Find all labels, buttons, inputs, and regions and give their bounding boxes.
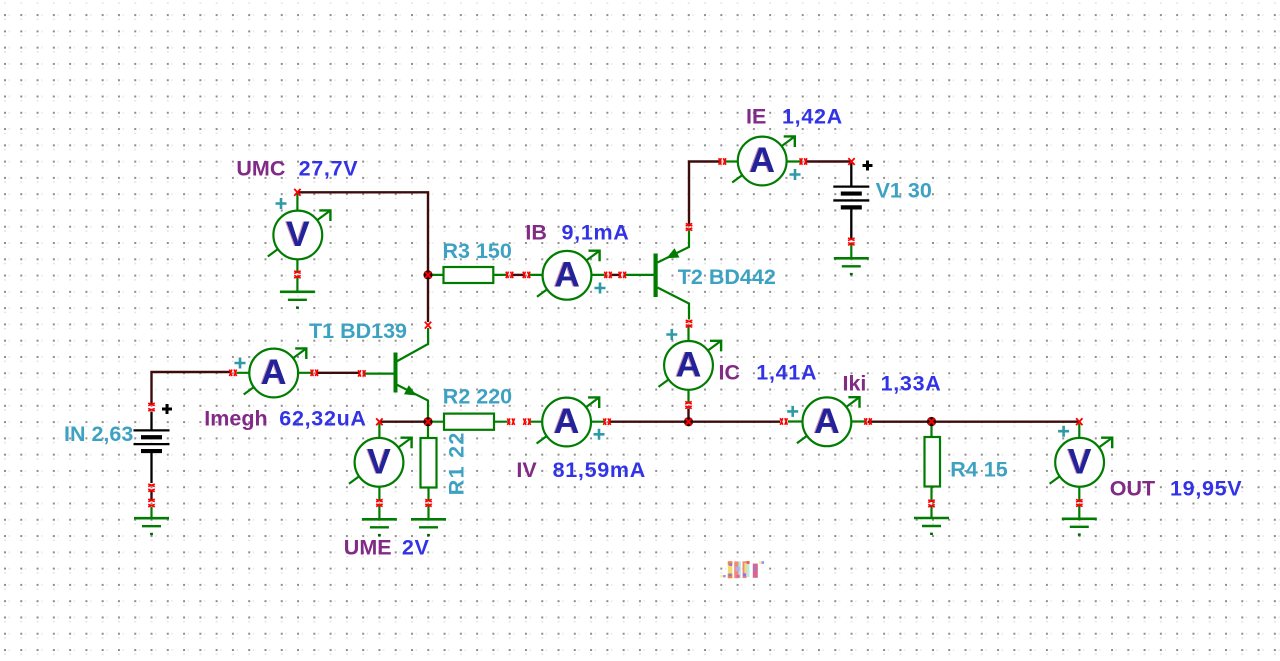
pin marks T2 collector / IC top — [686, 320, 693, 327]
pin marks IB right — [604, 272, 611, 279]
voltmeter UME top pin — [378, 424, 380, 438]
ammeter IC — [659, 341, 722, 390]
resistor R1 — [421, 438, 437, 488]
pin marks IV left — [523, 418, 530, 425]
pin marks UME bottom — [376, 499, 383, 506]
pin marks Imegh right — [311, 370, 318, 377]
battery V1 lead top — [850, 163, 852, 186]
ammeter IB — [537, 251, 600, 300]
voltmeter OUT top pin — [1078, 424, 1080, 439]
pin marks node B — [425, 418, 431, 425]
pin mark T1 collector — [425, 322, 431, 329]
wire: IV to node C — [610, 421, 685, 423]
ammeter IV — [537, 397, 600, 446]
ammeter IE pins — [726, 160, 801, 162]
svg-text:R2 220: R2 220 — [443, 384, 512, 408]
ground pin of UME — [378, 505, 380, 519]
svg-text:OUT: OUT — [1110, 477, 1155, 501]
wire: R3 to IB — [513, 274, 524, 276]
voltmeter UMC — [268, 210, 331, 259]
pin marks battery IN bottom — [148, 484, 155, 487]
wire: T2 emitter up and to IE meter — [689, 162, 720, 227]
svg-text:19,95V: 19,95V — [1170, 477, 1242, 501]
svg-text:IB: IB — [525, 221, 547, 245]
plus of IB — [595, 283, 606, 294]
plus of IN — [162, 404, 172, 414]
pin marks battery V1 bottom — [848, 238, 855, 245]
pin marks T2 emitter — [686, 223, 693, 230]
voltmeter OUT — [1050, 438, 1113, 487]
pin marks IB left — [523, 272, 530, 279]
plus of V1 — [863, 161, 873, 171]
voltmeter UME — [349, 438, 412, 487]
pin marks Iki right — [864, 418, 871, 425]
ground pin of UMC — [296, 277, 298, 292]
pin marks ground IN — [148, 499, 155, 502]
pin marks Iki left — [780, 418, 787, 425]
pin mark UMC top — [294, 189, 300, 196]
plus of OUT — [1058, 426, 1069, 437]
wire: Imegh to T1 base — [317, 372, 359, 374]
voltmeter UME bottom pin — [378, 487, 380, 501]
wire: node D to OUT voltmeter — [935, 421, 1079, 423]
pin marks OUT bottom — [1076, 499, 1083, 506]
svg-text:T1 BD139: T1 BD139 — [309, 319, 407, 343]
svg-text:IV: IV — [516, 458, 537, 482]
pin marks T1 base — [358, 370, 365, 377]
svg-text:UMC: UMC — [236, 156, 285, 180]
svg-text:1,33A: 1,33A — [881, 372, 942, 396]
voltmeter UMC top pin — [296, 194, 298, 212]
pin marks IV right — [603, 418, 610, 425]
ammeter IC bottom pin — [687, 390, 689, 402]
ammeter IV pins — [530, 421, 605, 423]
ground of UME — [362, 519, 397, 536]
pin marks battery IN top — [148, 403, 155, 406]
resistor R3 — [444, 267, 494, 283]
ammeter Imegh pins — [237, 372, 312, 374]
transistor T2 BD442 — [654, 231, 690, 320]
ammeter Iki pins — [788, 420, 866, 422]
pin marks R2 right — [507, 418, 514, 425]
svg-text:IN 2,63: IN 2,63 — [64, 422, 133, 446]
battery IN — [134, 430, 170, 451]
ground of IN — [134, 518, 169, 535]
svg-text:1,41A: 1,41A — [756, 361, 817, 385]
pin marks Imegh left — [229, 370, 236, 377]
svg-text:62,32uA: 62,32uA — [279, 407, 366, 431]
svg-text:2V: 2V — [402, 535, 430, 559]
pin marks node D — [928, 418, 934, 425]
resistor R2 — [444, 414, 494, 430]
resistor R2 leads — [432, 421, 508, 423]
node C junction — [684, 417, 693, 426]
wire: IE meter to battery V1 — [807, 160, 852, 162]
transistor T2 base pin — [625, 274, 654, 276]
ground under R4 — [914, 518, 949, 535]
battery IN lead top — [150, 412, 152, 431]
svg-text:R3 150: R3 150 — [443, 239, 512, 263]
pin marks UMC bottom — [294, 271, 301, 278]
resistor R4 top pin — [930, 426, 932, 438]
plus of IE — [790, 169, 801, 180]
pin marks R3 right — [506, 272, 513, 279]
resistor R1 bottom pin — [427, 488, 429, 502]
ground of UMC — [280, 292, 315, 309]
svg-text:Iki: Iki — [843, 372, 867, 396]
wire: node C to Iki — [693, 421, 932, 423]
svg-text:IC: IC — [719, 361, 741, 385]
plus of Iki — [787, 406, 798, 417]
svg-text:UME: UME — [344, 535, 392, 559]
resistor R4 bottom pin — [930, 487, 932, 503]
svg-text:R1 22: R1 22 — [444, 431, 468, 495]
pin mark battery V1 top — [848, 158, 854, 165]
battery V1 — [833, 187, 869, 208]
node B junction — [423, 417, 432, 426]
plus of IV — [594, 429, 605, 440]
resistor R1 top pin — [427, 426, 429, 439]
svg-text:T2 BD442: T2 BD442 — [678, 265, 776, 289]
pin mark OUT top — [1076, 418, 1082, 425]
wire: IB to T2 base — [612, 274, 620, 276]
resistor R3 leads — [431, 274, 507, 276]
voltmeter OUT bottom pin — [1078, 486, 1080, 502]
ground under R1 — [411, 519, 446, 536]
battery IN lead bottom — [150, 453, 152, 484]
pin marks IE left — [719, 158, 726, 165]
svg-text:R4 15: R4 15 — [950, 457, 1007, 481]
ammeter IC top pin — [687, 327, 689, 342]
plus of Imegh — [235, 358, 246, 369]
ground of OUT — [1062, 519, 1097, 536]
artifact text — [721, 561, 765, 578]
transistor T1 base pin — [365, 373, 394, 375]
ammeter Imegh — [244, 348, 307, 397]
svg-text:Imegh: Imegh — [204, 407, 267, 431]
pin marks R4 bottom — [928, 500, 935, 507]
node A junction — [423, 270, 432, 279]
ground of V1 — [834, 258, 869, 275]
pin marks IC bottom — [685, 401, 692, 408]
voltmeter UMC bottom pin — [296, 259, 298, 273]
pin marks R1 bottom — [425, 499, 432, 506]
transistor T1 BD139 — [394, 328, 429, 418]
wire: IC bottom to node C — [687, 409, 689, 419]
svg-text:27,7V: 27,7V — [299, 156, 359, 180]
ground pin under R4 — [930, 506, 932, 518]
battery V1 lead bottom — [850, 208, 852, 239]
pin marks node C — [685, 418, 691, 425]
svg-text:IE: IE — [746, 105, 766, 129]
svg-text:81,59mA: 81,59mA — [553, 458, 646, 482]
plus of UMC — [276, 198, 287, 209]
pin mark UME top — [376, 418, 382, 425]
node D junction — [927, 417, 936, 426]
pin marks node A — [425, 272, 431, 279]
wire: UMC top to node A down to T1 collector — [297, 192, 428, 322]
ammeter IE — [732, 136, 795, 185]
pin marks T2 base — [619, 272, 626, 279]
resistor R4 — [925, 437, 941, 487]
svg-text:V1 30: V1 30 — [876, 179, 932, 203]
wire: battery IN top to Imegh — [152, 372, 232, 404]
svg-text:1,42A: 1,42A — [782, 105, 843, 129]
ground pin of IN — [150, 507, 152, 518]
wire: battery IN bottom to ground — [150, 490, 152, 501]
ground pin of OUT — [1078, 506, 1080, 519]
ground pin under R1 — [427, 505, 429, 519]
plus of IC — [666, 329, 677, 340]
svg-text:9,1mA: 9,1mA — [562, 221, 630, 245]
ammeter IB pins — [530, 274, 605, 276]
wire: UME top to node B — [379, 421, 424, 423]
ammeter Iki — [797, 397, 860, 446]
ground pin of V1 — [850, 244, 852, 258]
pin marks IE right — [800, 158, 807, 165]
